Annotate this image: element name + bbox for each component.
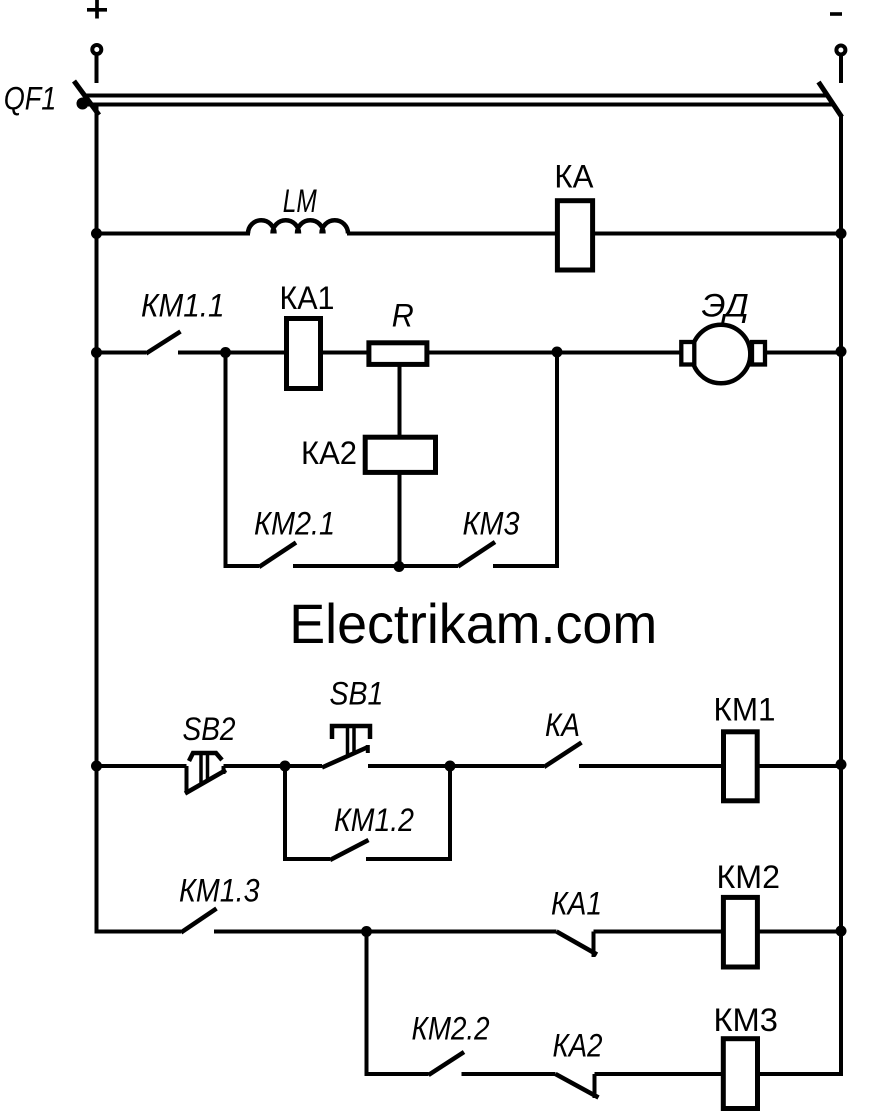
wire subrow left [224,564,260,568]
wire row3 left [97,764,187,768]
junction row3 left [91,761,102,772]
svg-text:Electrikam.com: Electrikam.com [289,593,657,655]
wire row3 a [224,764,323,768]
junction row3 x285 [280,761,291,772]
svg-text:КМ1: КМ1 [714,692,776,728]
junction row4 right [836,926,847,937]
resistor R [369,343,427,365]
wire busbar line 1 [86,94,827,98]
wire subrow mid [293,564,458,568]
junction row1 left [91,228,102,239]
svg-text:QF1: QF1 [4,80,57,116]
junction row3 x450 [445,761,456,772]
junction row2 right [836,346,847,357]
wire row5 c [759,1072,843,1076]
contact KM1.1 blade [146,332,181,354]
contact KM1.2 blade [330,840,369,860]
wire row2 a [178,351,286,355]
contact KM2.2 blade [429,1052,465,1075]
contactor coil KM2 [723,897,757,967]
contactor coil KM3 [723,1039,757,1109]
terminal circle left [92,45,101,54]
contact KA1 blade (NC) [557,932,598,958]
relay coil KA [557,201,592,270]
svg-text:КА2: КА2 [553,1028,603,1064]
wire branch x450 up [448,766,452,859]
wire KA2 down [398,471,402,568]
wire row1 mid [347,232,557,236]
svg-text:ЭД: ЭД [702,287,749,323]
wire row3 c [579,764,722,768]
svg-text:R: R [392,298,414,334]
relay coil KA1 [287,319,321,389]
inductor LM [248,220,348,233]
pushbutton SB2 [185,753,226,794]
wire branch x366 down [365,932,369,1077]
svg-text:КМ2.2: КМ2.2 [412,1011,490,1047]
wire row2 d [765,351,841,355]
wire left bus [95,103,99,934]
motor ED circle [692,325,751,384]
wire right bus [839,115,843,1076]
wire row3 b [368,764,544,768]
contact KM1.3 blade [181,909,217,933]
node + (plus terminal label) [87,0,107,19]
svg-text:КМ3: КМ3 [714,1002,779,1038]
svg-text:КМ3: КМ3 [463,506,520,542]
svg-text:КА1: КА1 [551,886,602,922]
wire [839,56,843,83]
motor ED right brush [752,342,765,365]
wire row5 left [365,1072,429,1076]
svg-text:КА2: КА2 [301,435,357,471]
svg-text:SB2: SB2 [183,711,236,747]
wire row2 left [97,351,147,355]
svg-text:КА1: КА1 [280,280,335,316]
contact KM3 blade [458,542,495,567]
wire row1 left [97,232,251,236]
wire row1 right [593,232,841,236]
wire subrow right [493,564,559,568]
junction subrow [394,561,405,572]
wire KM1.2 row left [283,857,330,861]
junction row2 x225 [220,347,231,358]
svg-text:LM: LM [283,183,318,219]
junction row4 x366 [361,926,372,937]
wire row4 a [214,930,557,934]
wire branch x557 up [555,353,559,569]
svg-text:КА: КА [545,707,580,743]
svg-text:КМ1.2: КМ1.2 [334,802,414,838]
svg-text:КМ1.1: КМ1.1 [141,288,225,324]
junction row2 x557 [552,347,563,358]
junction row3 right [836,759,847,770]
svg-text:КМ1.3: КМ1.3 [179,873,260,909]
motor ED left brush [681,342,694,365]
junction row2 left [91,347,102,358]
breaker QF1 blade left [74,81,99,115]
contactor coil KM1 [724,732,758,801]
junction row1 right [836,228,847,239]
contact KA2 blade (NC) [556,1074,599,1098]
wire row2 c [428,351,692,355]
wire row2 b [322,351,368,355]
wire row5 a [462,1072,556,1076]
svg-text:SB1: SB1 [330,676,384,712]
wire row4 left corner [97,930,182,934]
contact KA blade [544,743,582,768]
svg-text:КМ2: КМ2 [717,859,781,895]
breaker QF1 blade right [819,82,842,117]
terminal circle right [836,46,845,55]
wire [95,56,99,84]
contact KM2.1 blade [259,543,296,568]
svg-text:КМ2.1: КМ2.1 [254,506,335,542]
svg-text:КА: КА [554,159,593,195]
relay coil KA2 [365,437,435,472]
wire row3 d [757,764,841,768]
wire branch x225 down [224,353,228,569]
wire row4 b [594,930,723,934]
wire branch x285 down [283,766,287,861]
wire R to KA2 [398,364,402,440]
wire busbar line 2 [88,103,833,107]
pushbutton SB1 [322,726,370,768]
wire KM1.2 row right [366,857,452,861]
wire row5 b [595,1072,723,1076]
node - (minus terminal label) [830,12,842,16]
wire row4 c [756,930,841,934]
